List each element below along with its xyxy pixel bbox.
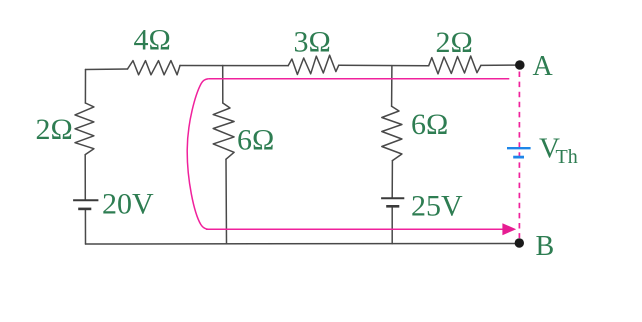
battery V1 20V short plate bbox=[78, 208, 91, 211]
svg-text:2Ω: 2Ω bbox=[36, 113, 73, 146]
svg-text:A: A bbox=[533, 51, 554, 82]
wire R6 to battery V2 bbox=[391, 161, 393, 199]
wire battery V1 to bottom rail bbox=[84, 209, 86, 244]
battery V2 25V short plate bbox=[386, 205, 399, 208]
wire top-left corner to R1 bbox=[86, 68, 128, 71]
svg-text:6Ω: 6Ω bbox=[237, 123, 274, 156]
node B terminal dot bbox=[515, 238, 524, 247]
svg-text:25V: 25V bbox=[411, 190, 463, 223]
resistor R3 2ohm bbox=[429, 56, 481, 74]
wire R1 to R2 bbox=[180, 65, 288, 67]
resistor R5 6ohm vertical bbox=[213, 103, 234, 159]
wire branch1 top lead bbox=[222, 66, 224, 104]
svg-text:6Ω: 6Ω bbox=[411, 108, 448, 141]
resistor R6 6ohm vertical bbox=[382, 106, 402, 160]
highlighted loop path (pink) top segment bbox=[208, 78, 509, 80]
wire branch2 top lead bbox=[391, 66, 393, 107]
highlighted loop path (pink) bottom segment bbox=[206, 228, 503, 230]
svg-text:4Ω: 4Ω bbox=[134, 23, 171, 56]
svg-text:20V: 20V bbox=[102, 187, 154, 220]
Thevenin source VTh long plate (blue) bbox=[507, 147, 531, 149]
Thevenin source VTh short plate (blue) bbox=[513, 156, 524, 159]
resistor R4 2ohm vertical bbox=[75, 103, 94, 155]
battery V2 25V long plate bbox=[381, 197, 404, 199]
svg-text:3Ω: 3Ω bbox=[294, 26, 331, 59]
wire battery V2 to bottom rail bbox=[391, 206, 393, 243]
bottom rail wire bbox=[86, 243, 515, 246]
resistor R2 3ohm bbox=[288, 55, 339, 74]
wire R4 to battery V1 bbox=[84, 155, 86, 201]
highlighted loop path (pink) left curve bbox=[187, 79, 208, 230]
resistor R1 4ohm bbox=[128, 61, 181, 75]
dashed pink line A to B bbox=[518, 72, 520, 239]
node A terminal dot bbox=[515, 60, 525, 70]
wire R2 to R3 bbox=[339, 64, 429, 66]
pink arrowhead at node B bbox=[502, 223, 516, 235]
wire R5 to bottom rail bbox=[225, 159, 228, 244]
svg-text:B: B bbox=[536, 231, 555, 262]
wire R3 to node A bbox=[481, 64, 515, 66]
svg-text:Th: Th bbox=[556, 146, 578, 168]
wire left branch top lead bbox=[84, 70, 86, 104]
svg-text:2Ω: 2Ω bbox=[436, 26, 473, 59]
battery V1 20V long plate bbox=[73, 199, 98, 201]
